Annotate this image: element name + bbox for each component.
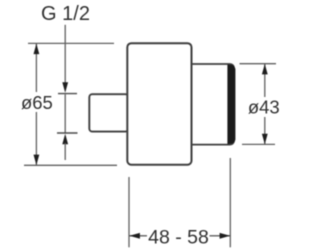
svg-text:48 - 58: 48 - 58 <box>148 227 209 249</box>
svg-text:ø65: ø65 <box>21 92 53 113</box>
svg-text:G 1/2: G 1/2 <box>41 3 90 25</box>
svg-text:ø43: ø43 <box>248 97 280 118</box>
